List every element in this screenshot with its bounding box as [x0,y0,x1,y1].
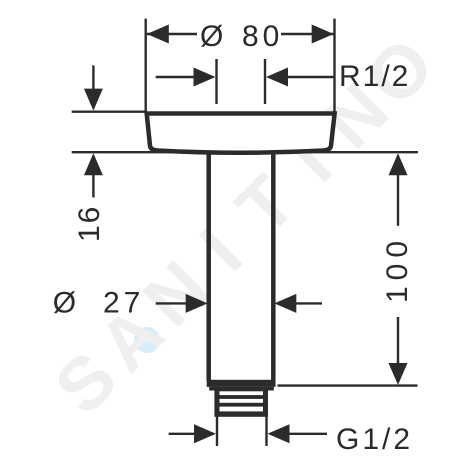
svg-text:G1/2: G1/2 [336,423,413,456]
svg-text:Ø: Ø [53,287,76,320]
svg-text:100: 100 [381,235,414,303]
svg-text:80: 80 [242,20,283,53]
svg-text:16: 16 [73,205,106,242]
svg-text:R1/2: R1/2 [339,60,410,93]
svg-text:27: 27 [103,287,144,320]
svg-text:Ø: Ø [200,20,223,53]
